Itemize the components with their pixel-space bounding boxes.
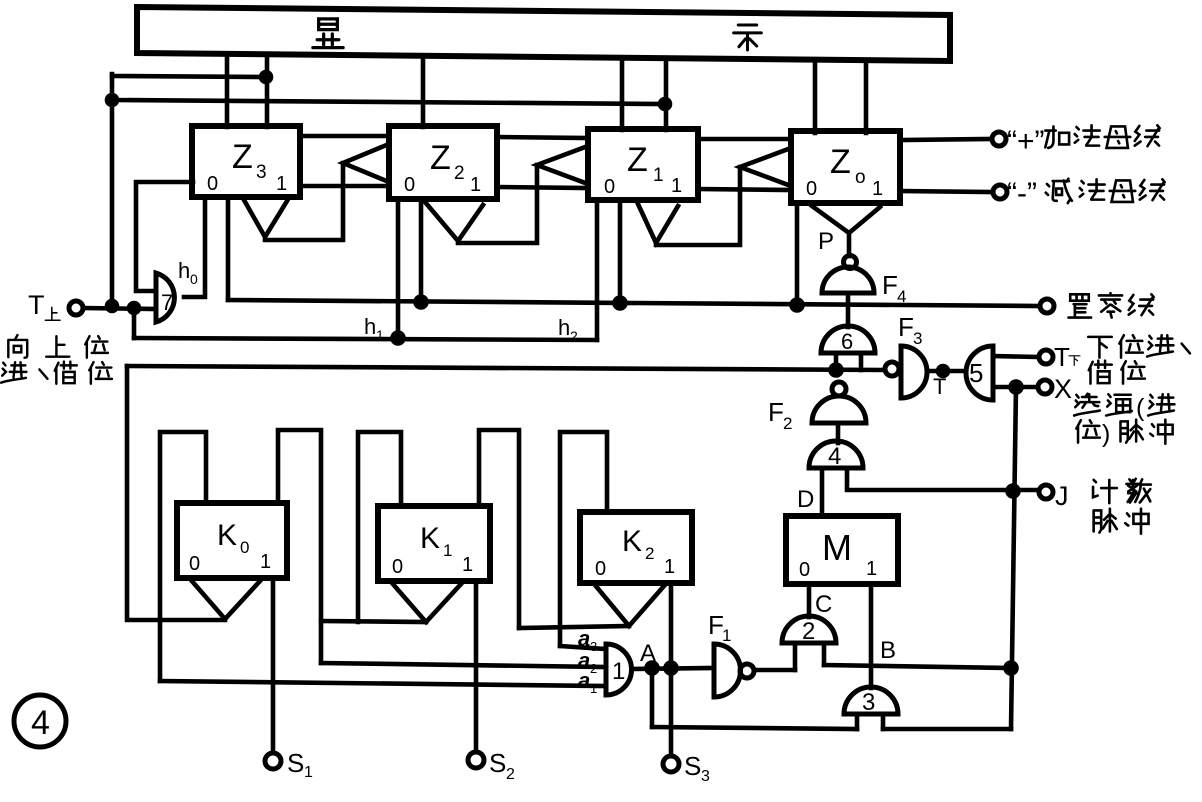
gate4 right leg to J bbox=[847, 468, 1039, 490]
wire T-shang to gate7 bbox=[83, 308, 156, 309]
label 显 bbox=[313, 19, 343, 48]
flip-flop Z1 bbox=[588, 129, 698, 200]
svg-text:J: J bbox=[1055, 481, 1069, 511]
gate F1 bbox=[714, 644, 741, 697]
wire K2 pin1 to S3 / A node bbox=[669, 583, 674, 756]
right rail vertical bbox=[1011, 387, 1016, 729]
gate2 right leg to B wire bbox=[822, 643, 827, 665]
svg-text:2: 2 bbox=[454, 163, 465, 184]
gate 1 bbox=[606, 644, 632, 695]
bubble F3 input bbox=[885, 362, 899, 376]
label 向上位 (upper carry/borrow) bbox=[8, 335, 27, 358]
svg-text:K: K bbox=[420, 522, 440, 555]
wire display to Z0 pin a bbox=[813, 61, 818, 133]
wire K1 apex to a2 rail bbox=[321, 621, 426, 622]
terminal J bbox=[1039, 485, 1053, 499]
gate F3 bbox=[901, 346, 927, 398]
wire A node down to bottom wire bbox=[650, 668, 655, 727]
wire triangle1 apex down bbox=[265, 163, 343, 240]
minus bus segment Z0-terminal bbox=[900, 191, 991, 192]
node S3 / A wire bbox=[666, 663, 677, 674]
wire K0 pin1 to S1 bbox=[271, 578, 276, 753]
loop cap1 K0 top bbox=[160, 432, 206, 681]
svg-text:Z: Z bbox=[830, 143, 851, 181]
terminal minus bus bbox=[993, 185, 1007, 199]
funnel K2 bbox=[595, 585, 664, 626]
svg-text:P: P bbox=[818, 228, 834, 255]
svg-text:S: S bbox=[287, 748, 304, 778]
coupling triangle Z1-Z0 bbox=[740, 148, 791, 186]
svg-text:0: 0 bbox=[806, 178, 817, 200]
funnel K1 bbox=[392, 583, 461, 622]
counter K0 bbox=[177, 503, 287, 578]
wire display to Z1 pin b bbox=[664, 60, 669, 130]
counter K1 bbox=[378, 506, 490, 581]
node wire B / Z1 bbox=[660, 99, 670, 109]
gate 5 (mirrored D) bbox=[966, 346, 993, 400]
terminal S1 bbox=[265, 753, 281, 769]
wire bottom left segment to A node bbox=[652, 727, 857, 729]
svg-text:0: 0 bbox=[189, 553, 200, 575]
minus bus segment Z1-Z0 bbox=[698, 189, 791, 190]
svg-text:3: 3 bbox=[256, 162, 267, 183]
svg-text:1: 1 bbox=[276, 173, 287, 195]
svg-text:3: 3 bbox=[590, 639, 597, 654]
funnel Z2 bbox=[425, 202, 483, 241]
terminal T-xia bbox=[1039, 350, 1053, 364]
svg-text:2: 2 bbox=[590, 661, 597, 676]
svg-text:a: a bbox=[578, 668, 590, 693]
svg-text:C: C bbox=[815, 591, 832, 618]
svg-text:K: K bbox=[622, 525, 642, 558]
svg-text:T: T bbox=[1054, 342, 1070, 372]
wire display to Z3 pin b bbox=[265, 57, 270, 127]
gate6 right leg bbox=[859, 353, 864, 370]
flip-flop Z3 bbox=[192, 126, 300, 197]
svg-text:(: ( bbox=[1136, 394, 1145, 422]
svg-text:h: h bbox=[558, 315, 570, 340]
label 计数脉冲 bbox=[1093, 480, 1117, 503]
wire Z0 pin0 down bbox=[795, 204, 800, 305]
svg-text:1: 1 bbox=[653, 165, 664, 186]
wire gate7 output up to Z3 bbox=[184, 199, 205, 297]
svg-text:4: 4 bbox=[31, 704, 50, 742]
svg-text:Z: Z bbox=[430, 139, 451, 177]
svg-text:2: 2 bbox=[506, 766, 515, 783]
svg-text:X: X bbox=[1054, 374, 1072, 404]
minus bus segment Z3-Z2 bbox=[300, 184, 389, 189]
node h1 bbox=[393, 333, 404, 344]
plus bus segment Z2-Z1 bbox=[497, 137, 588, 138]
plus bus segment Z3-Z2 bbox=[300, 134, 389, 139]
svg-text:4: 4 bbox=[828, 443, 841, 470]
wire zero line 置零线 bbox=[228, 300, 1040, 306]
svg-text:1: 1 bbox=[722, 626, 731, 645]
svg-text:6: 6 bbox=[841, 329, 853, 354]
svg-text:0: 0 bbox=[240, 538, 249, 557]
node rail / T wire bbox=[107, 301, 117, 311]
svg-text:1: 1 bbox=[664, 556, 675, 578]
svg-text:1: 1 bbox=[590, 681, 597, 696]
wire long h365 from K0 rail to F3 bbox=[127, 366, 885, 370]
wire left rail down to T input bbox=[110, 74, 115, 306]
svg-text:0: 0 bbox=[799, 559, 810, 581]
wire M pin1 down to gate3 bbox=[869, 584, 874, 688]
node J wire / right rail bbox=[1008, 486, 1019, 497]
wire display to Z2 bbox=[421, 58, 426, 127]
node A bbox=[647, 663, 658, 674]
loop cap5 K2 top / a3 bbox=[560, 432, 607, 646]
svg-text:3: 3 bbox=[862, 689, 875, 716]
svg-text:2: 2 bbox=[645, 544, 654, 563]
wire K1 pin1 to S2 bbox=[474, 581, 479, 752]
register M bbox=[786, 516, 898, 584]
node wire A / Z3 bbox=[261, 72, 271, 82]
wire F2 to gate4 bbox=[836, 423, 841, 443]
svg-text:1: 1 bbox=[671, 175, 682, 197]
svg-text:7: 7 bbox=[161, 290, 173, 315]
svg-text:1: 1 bbox=[443, 541, 452, 560]
node B wire / right rail bbox=[1006, 663, 1017, 674]
wire left rail k-loop down bbox=[127, 366, 225, 620]
loop cap4 K1 top / K2 apex bbox=[479, 430, 519, 628]
terminal T-shang bbox=[69, 301, 83, 315]
node on F3-5 wire bbox=[938, 366, 948, 376]
label 进、借位 bbox=[1, 362, 26, 383]
wire F3 output to gate5 bbox=[928, 369, 964, 374]
svg-text:4: 4 bbox=[897, 287, 906, 306]
svg-text:1: 1 bbox=[304, 764, 313, 781]
label 选通(进位)脉冲 bbox=[1074, 394, 1100, 416]
svg-text:0: 0 bbox=[604, 176, 615, 198]
svg-text:T: T bbox=[28, 290, 45, 320]
gate3 left leg bbox=[855, 714, 860, 729]
wire Z2 pin1 down bbox=[419, 200, 424, 302]
wire Z2 pin0 down to h-line bbox=[396, 201, 401, 338]
loop cap2 K0 top / a2 rail bbox=[278, 430, 321, 663]
svg-text:1: 1 bbox=[462, 554, 473, 576]
bubble F1 output bbox=[740, 664, 754, 678]
svg-text:2: 2 bbox=[802, 618, 815, 645]
flip-flop Z0 bbox=[791, 131, 900, 203]
wire Z1 pin0 down to h-line bbox=[595, 201, 600, 340]
wire display to Z1 pin a bbox=[620, 60, 625, 130]
node X wire / right rail bbox=[1011, 382, 1022, 393]
svg-text:): ) bbox=[1102, 420, 1110, 448]
wire M pin0 to gate2 bbox=[807, 584, 812, 617]
svg-text:Z: Z bbox=[627, 141, 648, 179]
wire a2 to gate1 bbox=[321, 663, 606, 667]
svg-text:5: 5 bbox=[969, 358, 983, 388]
wire B horizontal bbox=[824, 665, 1011, 668]
wire h-line horizontal bbox=[134, 338, 597, 340]
label 示 bbox=[734, 25, 762, 50]
gate 7 bbox=[156, 273, 174, 322]
flip-flop Z2 bbox=[389, 126, 497, 199]
wire F4 to gate6 bbox=[846, 293, 851, 327]
svg-text:M: M bbox=[822, 527, 852, 568]
label 置零线 bbox=[1068, 294, 1091, 317]
svg-text:1: 1 bbox=[872, 178, 883, 200]
wire gate1 output to F1 bbox=[632, 668, 714, 669]
svg-text:0: 0 bbox=[190, 271, 198, 287]
svg-text:F: F bbox=[768, 397, 784, 427]
wire Z3 left to gate7 input bbox=[136, 182, 193, 291]
gate2 left leg bbox=[793, 643, 798, 670]
svg-text:T: T bbox=[933, 374, 946, 399]
gate F2 dome bbox=[812, 396, 866, 423]
svg-text:B: B bbox=[880, 637, 896, 664]
node Z2/zero line bbox=[416, 297, 427, 308]
svg-text:F: F bbox=[898, 312, 914, 342]
svg-text:Z: Z bbox=[232, 138, 253, 176]
funnel Z1 bbox=[638, 204, 678, 243]
wire gate5 to T-xia terminal bbox=[993, 356, 1039, 357]
svg-text:“-”: “-” bbox=[1007, 177, 1037, 210]
terminal plus bus bbox=[992, 132, 1006, 146]
wire triangle2 apex down bbox=[458, 165, 537, 243]
minus bus segment Z2-Z1 bbox=[497, 187, 588, 188]
wire A horizontal bbox=[112, 76, 266, 77]
gate4 left leg to M bbox=[820, 468, 825, 516]
svg-text:D: D bbox=[797, 486, 814, 513]
node gate6 left leg bbox=[831, 365, 842, 376]
terminal S2 bbox=[468, 752, 484, 768]
gate 3 dome bbox=[844, 687, 898, 714]
svg-text:3: 3 bbox=[701, 768, 710, 785]
gate F4 dome bbox=[822, 267, 874, 293]
svg-text:h: h bbox=[364, 314, 376, 339]
display unit box 显示 bbox=[137, 7, 950, 61]
svg-text:F: F bbox=[882, 270, 898, 300]
wire bottom right segment to rail bbox=[883, 727, 1011, 732]
counter K2 bbox=[580, 512, 692, 583]
plus bus segment Z1-Z0 bbox=[698, 137, 791, 142]
wire triangle3 apex down bbox=[656, 167, 740, 245]
svg-text:0: 0 bbox=[595, 558, 606, 580]
coupling triangle Z3-Z2 bbox=[343, 144, 389, 182]
svg-text:1: 1 bbox=[470, 174, 481, 196]
svg-text:1: 1 bbox=[866, 558, 877, 580]
bubble F4 input bbox=[844, 256, 857, 269]
svg-text:0: 0 bbox=[392, 556, 403, 578]
wire Z3 down to zero line bbox=[226, 200, 231, 300]
svg-text:0: 0 bbox=[404, 174, 415, 196]
wire P apex to F4 bubble bbox=[847, 233, 852, 256]
wire display to Z0 pin b bbox=[864, 62, 869, 133]
node Z1/zero line bbox=[615, 298, 626, 309]
label 下位进、借位 bbox=[1088, 337, 1112, 358]
svg-text:1: 1 bbox=[612, 658, 625, 685]
wire display to Z3 pin a bbox=[225, 56, 230, 127]
node Z0/zero line bbox=[792, 300, 803, 311]
wire Z1 pin1 down bbox=[618, 201, 623, 303]
svg-text:K: K bbox=[217, 519, 237, 552]
svg-text:h: h bbox=[178, 258, 190, 283]
terminal zero line bbox=[1040, 299, 1054, 313]
funnel K0 bbox=[191, 580, 260, 619]
coupling triangle Z2-Z1 bbox=[537, 146, 588, 184]
svg-text:S: S bbox=[489, 748, 506, 778]
plus bus segment Z0-terminal bbox=[900, 139, 991, 140]
bubble F2 input bbox=[832, 382, 846, 396]
svg-text:S: S bbox=[684, 751, 701, 781]
wire B horizontal bbox=[112, 100, 666, 104]
gate 6 dome bbox=[821, 326, 875, 353]
node rail / wire B bbox=[107, 95, 117, 105]
wire a3 to gate1 bbox=[560, 646, 606, 649]
svg-text:o: o bbox=[855, 167, 866, 188]
svg-text:1: 1 bbox=[376, 327, 384, 343]
wire a1 to gate1 bbox=[160, 681, 606, 686]
svg-text:2: 2 bbox=[570, 328, 578, 344]
figure number circled 4 bbox=[14, 695, 66, 747]
terminal S3 bbox=[663, 756, 679, 772]
svg-text:3: 3 bbox=[913, 329, 922, 348]
wire down from T node bbox=[132, 308, 137, 338]
gate3 right leg bbox=[881, 714, 886, 729]
funnel Z0 node P bbox=[812, 206, 880, 233]
loop cap3 K1 top bbox=[358, 432, 401, 622]
svg-text:1: 1 bbox=[260, 551, 271, 573]
terminal X bbox=[1038, 380, 1052, 394]
wire K2 apex to cap4 bbox=[519, 626, 629, 628]
svg-text:“+”: “+” bbox=[1007, 125, 1045, 158]
gate 4 dome bbox=[809, 441, 863, 468]
right side and left side chinese labels bbox=[1, 125, 1190, 534]
svg-text:2: 2 bbox=[783, 414, 792, 433]
wire gate5 to X terminal bbox=[993, 385, 1038, 390]
funnel Z3 bbox=[244, 200, 287, 237]
svg-text:0: 0 bbox=[207, 173, 218, 195]
gate6 left leg bbox=[834, 353, 839, 370]
gate 2 dome bbox=[782, 616, 836, 643]
wire F1 output to gate2 bbox=[754, 668, 795, 673]
node T wire / h-line rail bbox=[129, 303, 139, 313]
